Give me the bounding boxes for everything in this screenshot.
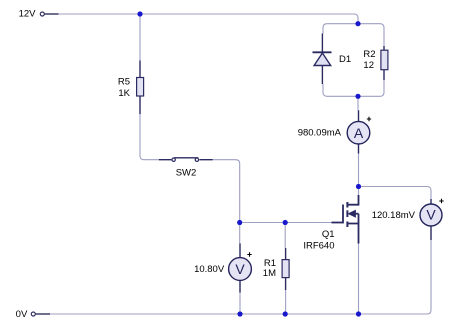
svg-text:D1: D1: [339, 54, 351, 65]
node network top: [355, 21, 360, 26]
wire gate rail: [242, 222, 334, 224]
wire ammeter to drain node: [358, 154, 360, 184]
resistor R5: [139, 61, 141, 115]
ammeter circle: [347, 121, 370, 144]
wire R5 to SW2: [140, 114, 159, 160]
svg-text:V: V: [235, 261, 245, 277]
svg-text:10.80V: 10.80V: [194, 264, 225, 275]
node V1/rail junction: [237, 311, 242, 316]
voltmeter V1 plus: [247, 252, 251, 256]
svg-text:120.18mV: 120.18mV: [372, 210, 416, 221]
wire SW2 to gate junction: [213, 160, 240, 220]
ammeter U-A leads: [358, 110, 360, 153]
wire top rail: [59, 14, 359, 22]
node network bottom: [355, 94, 360, 99]
svg-text:980.09mA: 980.09mA: [298, 128, 342, 139]
svg-text:SW2: SW2: [176, 168, 197, 179]
resistor R2: [383, 46, 385, 80]
transistor Q1 gate bar: [342, 205, 344, 224]
svg-text:R2: R2: [363, 49, 375, 60]
wire voltmeter V1 to rail: [239, 293, 241, 312]
wire junction to R5: [139, 17, 141, 61]
svg-text:Q1: Q1: [322, 229, 335, 240]
svg-text:1M: 1M: [263, 268, 276, 279]
terminal 12V: [40, 12, 44, 16]
node drain junction: [356, 184, 361, 189]
voltmeter V2 circle: [420, 204, 442, 226]
wire Q1 source to bottom rail: [358, 244, 360, 312]
node source/rail junction: [356, 311, 361, 316]
wire bottom rail: [50, 313, 356, 315]
svg-text:12V: 12V: [19, 9, 37, 20]
voltmeter V1 leads: [239, 243, 241, 292]
transistor Q1 drain lead: [348, 195, 359, 205]
wire R1 branch down: [284, 225, 286, 248]
voltmeter V2 leads: [430, 199, 432, 240]
svg-text:IRF640: IRF640: [303, 240, 334, 251]
svg-text:V: V: [426, 207, 436, 223]
diode D1: [321, 34, 323, 85]
switch SW2: [159, 159, 213, 161]
svg-text:12: 12: [363, 60, 374, 71]
terminal 0V: [31, 312, 35, 316]
wire network bottom: [323, 80, 384, 96]
svg-text:R5: R5: [118, 77, 130, 88]
node gate rail left junction: [237, 220, 242, 225]
transistor Q1 body arrow: [349, 210, 356, 217]
node gate rail R1 junction: [283, 220, 288, 225]
wire R1 to rail: [285, 290, 287, 312]
wire drain node to voltmeter V2: [361, 187, 431, 200]
wire network to ammeter: [357, 99, 359, 110]
resistor R1: [285, 248, 287, 290]
wire voltmeter V2 to bottom rail: [361, 240, 431, 314]
svg-text:0V: 0V: [16, 309, 28, 320]
svg-text:1K: 1K: [118, 88, 130, 99]
node top-rail / R5 junction: [137, 11, 142, 16]
wire V1 branch down: [239, 225, 241, 243]
svg-text:A: A: [354, 125, 364, 141]
voltmeter V2 plus: [439, 199, 443, 203]
wire top rail to D1/R2 network: [323, 24, 384, 46]
voltmeter V1 circle: [229, 258, 252, 281]
transistor Q1 source lead: [348, 214, 359, 244]
ammeter plus: [367, 117, 371, 121]
transistor Q1 channel bars: [346, 202, 348, 227]
node R1/rail junction: [283, 311, 288, 316]
transistor Q1 gate lead: [332, 222, 344, 224]
